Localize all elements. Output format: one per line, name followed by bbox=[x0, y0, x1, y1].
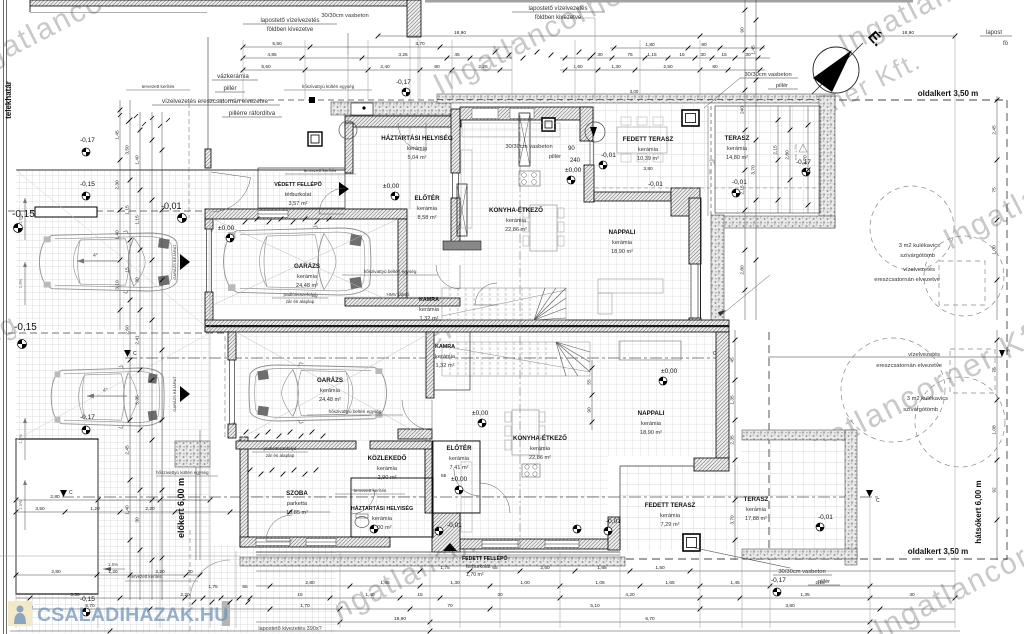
svg-text:1,20: 1,20 bbox=[90, 506, 100, 512]
svg-text:30: 30 bbox=[135, 277, 141, 283]
svg-text:1,75: 1,75 bbox=[440, 565, 450, 571]
svg-text:2,50: 2,50 bbox=[663, 64, 673, 70]
svg-text:lapostető vízelvezetés: lapostető vízelvezetés bbox=[528, 6, 587, 12]
svg-text:-0,01: -0,01 bbox=[161, 201, 182, 211]
svg-text:1,5%: 1,5% bbox=[18, 214, 23, 224]
svg-text:A: A bbox=[1007, 348, 1010, 353]
svg-text:1,00: 1,00 bbox=[992, 245, 998, 255]
svg-text:1,40: 1,40 bbox=[135, 155, 141, 165]
svg-text:18,90: 18,90 bbox=[394, 616, 406, 622]
svg-text:1,70: 1,70 bbox=[300, 603, 310, 609]
svg-text:kerámia: kerámia bbox=[506, 218, 527, 224]
svg-text:18,90 m²: 18,90 m² bbox=[640, 430, 662, 436]
svg-text:4°: 4° bbox=[103, 388, 108, 394]
svg-text:75: 75 bbox=[627, 52, 633, 58]
svg-text:3,50: 3,50 bbox=[35, 506, 45, 512]
svg-text:2,15: 2,15 bbox=[773, 145, 779, 155]
svg-text:HÁZTARTÁSI HELYISÉG: HÁZTARTÁSI HELYISÉG bbox=[351, 504, 413, 512]
svg-text:30/30cm vasbeton: 30/30cm vasbeton bbox=[321, 13, 368, 19]
svg-text:kerámia: kerámia bbox=[435, 354, 456, 360]
svg-text:fö: fö bbox=[1003, 41, 1009, 47]
svg-text:hőszivattyú kültéri egység: hőszivattyú kültéri egység bbox=[302, 84, 355, 89]
svg-text:240: 240 bbox=[740, 106, 746, 114]
svg-text:VÉDETT FELLÉPŐ: VÉDETT FELLÉPŐ bbox=[274, 180, 322, 188]
svg-text:5,04 m²: 5,04 m² bbox=[408, 155, 427, 161]
svg-text:3 m2 kulékavics: 3 m2 kulékavics bbox=[899, 243, 940, 249]
svg-text:pillérre ráfordítva: pillérre ráfordítva bbox=[229, 110, 276, 117]
svg-text:65: 65 bbox=[242, 584, 248, 590]
svg-text:2,45: 2,45 bbox=[125, 445, 131, 455]
svg-text:zár és alaplap: zár és alaplap bbox=[266, 453, 295, 458]
svg-text:HMV tároló: HMV tároló bbox=[387, 292, 410, 297]
svg-text:1,45: 1,45 bbox=[730, 580, 740, 586]
svg-text:3,10: 3,10 bbox=[115, 280, 121, 290]
svg-text:térburkolat: térburkolat bbox=[285, 192, 312, 198]
svg-text:oldalkert 3,50 m: oldalkert 3,50 m bbox=[908, 547, 968, 556]
svg-text:90: 90 bbox=[740, 27, 746, 33]
svg-text:előkert 6,00 m: előkert 6,00 m bbox=[176, 478, 186, 538]
svg-text:FEDETT FELLÉPŐ: FEDETT FELLÉPŐ bbox=[462, 554, 508, 562]
svg-text:80: 80 bbox=[701, 42, 707, 48]
svg-text:lapost: lapost bbox=[986, 30, 1002, 36]
svg-text:kerámia: kerámia bbox=[297, 274, 318, 280]
svg-text:1,5%: 1,5% bbox=[18, 434, 23, 444]
svg-text:GARÁZS BEJÁRAT: GARÁZS BEJÁRAT bbox=[172, 244, 177, 280]
svg-text:1,5%: 1,5% bbox=[18, 500, 23, 510]
svg-text:ereszcsatornán elvezetve: ereszcsatornán elvezetve bbox=[876, 363, 942, 369]
svg-text:hőszivattyú beltéri egység: hőszivattyú beltéri egység bbox=[364, 269, 417, 274]
svg-text:3,25: 3,25 bbox=[398, 52, 408, 58]
svg-text:földben kivezetve: földben kivezetve bbox=[267, 27, 314, 33]
svg-text:SZOBA: SZOBA bbox=[286, 490, 308, 497]
svg-text:7,29 m²: 7,29 m² bbox=[661, 522, 680, 528]
svg-text:±0,00: ±0,00 bbox=[383, 183, 400, 190]
svg-text:C: C bbox=[69, 490, 73, 496]
svg-text:C: C bbox=[876, 498, 880, 504]
svg-text:1,65: 1,65 bbox=[665, 580, 675, 586]
svg-text:30: 30 bbox=[745, 52, 751, 58]
svg-text:hőszivattyú beltéri egység: hőszivattyú beltéri egység bbox=[329, 409, 382, 414]
svg-text:1,40: 1,40 bbox=[125, 505, 131, 515]
svg-text:1,45: 1,45 bbox=[751, 45, 757, 55]
svg-text:tervezett kerítés: tervezett kerítés bbox=[130, 574, 162, 579]
svg-text:90: 90 bbox=[568, 146, 575, 152]
svg-text:2,80: 2,80 bbox=[51, 569, 61, 575]
svg-text:NAPPALI: NAPPALI bbox=[638, 410, 665, 417]
svg-text:80: 80 bbox=[712, 64, 718, 70]
svg-text:padlóösszefolyó: padlóösszefolyó bbox=[284, 292, 317, 297]
svg-text:3,70: 3,70 bbox=[730, 515, 736, 525]
svg-text:szívárgótömb: szívárgótömb bbox=[900, 253, 935, 259]
svg-text:pillér: pillér bbox=[776, 83, 788, 89]
svg-text:vízelvezetés ereszcsatornán el: vízelvezetés ereszcsatornán elvezetve bbox=[162, 98, 268, 105]
svg-text:24,48 m²: 24,48 m² bbox=[319, 397, 341, 403]
svg-text:TERASZ: TERASZ bbox=[744, 496, 769, 503]
svg-text:-0,15: -0,15 bbox=[80, 596, 95, 603]
svg-text:5,10: 5,10 bbox=[590, 603, 600, 609]
svg-text:vízelvezetés: vízelvezetés bbox=[908, 352, 940, 358]
svg-text:15: 15 bbox=[679, 52, 685, 58]
svg-text:4,20: 4,20 bbox=[625, 592, 635, 598]
svg-text:kerámia: kerámia bbox=[746, 507, 767, 513]
svg-text:GARÁZS: GARÁZS bbox=[317, 377, 343, 384]
svg-text:±0,00: ±0,00 bbox=[661, 368, 678, 375]
svg-text:4,85: 4,85 bbox=[267, 52, 277, 58]
svg-text:hőszivattyú kültéri egység: hőszivattyú kültéri egység bbox=[156, 470, 209, 475]
svg-text:1,35: 1,35 bbox=[730, 395, 736, 405]
svg-text:3,70: 3,70 bbox=[751, 165, 757, 175]
svg-text:szívárgótömb: szívárgótömb bbox=[903, 407, 938, 413]
svg-text:zár és alaplap: zár és alaplap bbox=[286, 299, 315, 304]
svg-text:3,00: 3,00 bbox=[630, 89, 639, 94]
svg-text:24,48 m²: 24,48 m² bbox=[296, 283, 318, 289]
svg-text:2,60: 2,60 bbox=[125, 325, 131, 335]
svg-text:30/30cm vasbeton: 30/30cm vasbeton bbox=[778, 569, 825, 575]
svg-text:1,5%: 1,5% bbox=[108, 562, 118, 567]
svg-text:90: 90 bbox=[587, 407, 593, 413]
svg-text:vázkerámia: vázkerámia bbox=[217, 73, 249, 80]
svg-text:kerámia: kerámia bbox=[377, 466, 398, 472]
svg-text:1,00: 1,00 bbox=[520, 580, 530, 586]
svg-text:30/30cm vasbeton: 30/30cm vasbeton bbox=[505, 144, 552, 150]
svg-text:6,70: 6,70 bbox=[645, 616, 655, 622]
svg-text:15: 15 bbox=[125, 267, 131, 273]
svg-text:1,32 m²: 1,32 m² bbox=[420, 316, 439, 322]
svg-text:65: 65 bbox=[492, 565, 498, 571]
svg-text:kerámia: kerámia bbox=[407, 146, 428, 152]
svg-text:padlóösszefolyó: padlóösszefolyó bbox=[264, 446, 297, 451]
svg-text:7,41 m²: 7,41 m² bbox=[450, 465, 469, 471]
svg-text:2,20: 2,20 bbox=[145, 506, 155, 512]
svg-text:1,30: 1,30 bbox=[450, 580, 460, 586]
svg-text:CSALADIHAZAK.HU: CSALADIHAZAK.HU bbox=[37, 604, 229, 626]
svg-text:±0,00: ±0,00 bbox=[472, 410, 489, 417]
svg-text:kerámia: kerámia bbox=[320, 388, 341, 394]
svg-text:kerámia: kerámia bbox=[417, 206, 438, 212]
svg-text:2,45: 2,45 bbox=[992, 125, 998, 135]
svg-text:ELŐTÉR: ELŐTÉR bbox=[446, 444, 472, 452]
svg-text:15: 15 bbox=[721, 52, 727, 58]
svg-text:kerámia: kerámia bbox=[419, 307, 440, 313]
svg-text:2,15: 2,15 bbox=[815, 580, 825, 586]
svg-text:3,80: 3,80 bbox=[785, 603, 795, 609]
svg-text:KAMRA: KAMRA bbox=[435, 344, 455, 350]
svg-text:1,80: 1,80 bbox=[645, 42, 655, 48]
svg-text:-0,01: -0,01 bbox=[447, 522, 462, 529]
svg-text:-0,15: -0,15 bbox=[14, 322, 37, 333]
svg-text:45: 45 bbox=[454, 52, 460, 58]
svg-text:1,30: 1,30 bbox=[611, 64, 621, 70]
svg-text:30: 30 bbox=[909, 592, 915, 598]
svg-text:1,50: 1,50 bbox=[655, 565, 665, 571]
svg-text:3,57 m²: 3,57 m² bbox=[289, 201, 308, 207]
svg-text:3 m2 kulékavics: 3 m2 kulékavics bbox=[907, 396, 948, 402]
svg-text:1,15: 1,15 bbox=[647, 52, 657, 58]
svg-text:kerámia: kerámia bbox=[372, 516, 393, 522]
svg-text:ELŐTÉR: ELŐTÉR bbox=[414, 194, 440, 202]
svg-text:3,80: 3,80 bbox=[643, 166, 653, 172]
svg-text:pillér: pillér bbox=[223, 85, 236, 92]
svg-text:-0,17: -0,17 bbox=[771, 577, 786, 584]
svg-text:1,5%: 1,5% bbox=[18, 278, 23, 288]
svg-text:1,40: 1,40 bbox=[365, 592, 375, 598]
svg-text:parketta: parketta bbox=[287, 501, 308, 507]
svg-text:KONYHA-ÉTKEZŐ: KONYHA-ÉTKEZŐ bbox=[489, 206, 543, 214]
svg-text:KONYHA-ÉTKEZŐ: KONYHA-ÉTKEZŐ bbox=[513, 434, 567, 442]
svg-text:2,80: 2,80 bbox=[785, 150, 791, 160]
svg-text:KÖZLEKEDŐ: KÖZLEKEDŐ bbox=[368, 455, 407, 462]
svg-text:1,32 m²: 1,32 m² bbox=[436, 363, 455, 369]
svg-text:tervezett kerítés: tervezett kerítés bbox=[304, 168, 337, 173]
svg-text:75: 75 bbox=[992, 367, 998, 373]
svg-text:80: 80 bbox=[434, 64, 440, 70]
svg-text:1,08: 1,08 bbox=[992, 425, 998, 435]
svg-text:TERASZ: TERASZ bbox=[725, 135, 750, 142]
svg-text:2,60: 2,60 bbox=[540, 565, 550, 571]
svg-text:1,65: 1,65 bbox=[380, 580, 390, 586]
svg-text:±0,00: ±0,00 bbox=[451, 476, 468, 483]
svg-text:pillér: pillér bbox=[549, 154, 561, 160]
svg-text:1,05: 1,05 bbox=[595, 580, 605, 586]
svg-text:lapostető vízelvezetés: lapostető vízelvezetés bbox=[260, 18, 319, 24]
svg-text:1,40: 1,40 bbox=[115, 230, 121, 240]
svg-text:tervezett kerítés: tervezett kerítés bbox=[142, 84, 175, 89]
svg-text:térburkolat: térburkolat bbox=[466, 564, 491, 570]
svg-text:2,90 m²: 2,90 m² bbox=[378, 475, 397, 481]
svg-text:4°: 4° bbox=[93, 253, 98, 259]
svg-text:55: 55 bbox=[441, 473, 447, 479]
svg-text:kerámia: kerámia bbox=[660, 513, 681, 519]
svg-text:2,25: 2,25 bbox=[478, 64, 488, 70]
svg-text:18,90: 18,90 bbox=[902, 30, 914, 36]
svg-text:kerámia: kerámia bbox=[449, 456, 470, 462]
svg-text:kerámia: kerámia bbox=[727, 146, 748, 152]
svg-text:oldalkert 3,50 m: oldalkert 3,50 m bbox=[918, 89, 978, 98]
svg-text:1,65: 1,65 bbox=[597, 565, 607, 571]
svg-text:3,50: 3,50 bbox=[125, 145, 131, 155]
svg-text:15: 15 bbox=[297, 592, 303, 598]
svg-text:min 1,5%: min 1,5% bbox=[794, 144, 798, 160]
svg-text:-0,01: -0,01 bbox=[648, 181, 663, 188]
svg-text:18,90: 18,90 bbox=[454, 30, 466, 36]
svg-text:55: 55 bbox=[587, 379, 593, 385]
svg-text:1,35: 1,35 bbox=[800, 592, 810, 598]
svg-text:-0,17: -0,17 bbox=[396, 79, 411, 86]
svg-text:FEDETT TERASZ: FEDETT TERASZ bbox=[645, 502, 696, 509]
svg-text:2,30: 2,30 bbox=[115, 180, 121, 190]
svg-text:-0,01: -0,01 bbox=[601, 152, 616, 159]
svg-text:10,39 m²: 10,39 m² bbox=[637, 156, 659, 162]
svg-text:kerámia: kerámia bbox=[612, 240, 633, 246]
svg-text:-0,01: -0,01 bbox=[818, 514, 833, 521]
svg-text:3,70: 3,70 bbox=[803, 155, 809, 165]
svg-text:vízelvezetés: vízelvezetés bbox=[903, 267, 935, 273]
svg-text:30: 30 bbox=[597, 52, 603, 58]
svg-text:±0,00: ±0,00 bbox=[565, 167, 582, 174]
svg-text:hátsókert 6,00 m: hátsókert 6,00 m bbox=[974, 480, 983, 543]
svg-text:3,50: 3,50 bbox=[70, 592, 80, 598]
svg-text:2,80: 2,80 bbox=[50, 494, 60, 500]
svg-text:45: 45 bbox=[730, 357, 736, 363]
svg-text:kerámia: kerámia bbox=[641, 421, 662, 427]
svg-text:-0,01: -0,01 bbox=[606, 518, 621, 525]
svg-text:ereszcsatornán elvezetve: ereszcsatornán elvezetve bbox=[874, 277, 940, 283]
svg-text:-0,15: -0,15 bbox=[12, 209, 35, 220]
svg-text:15: 15 bbox=[417, 592, 423, 598]
svg-text:2,15: 2,15 bbox=[740, 185, 746, 195]
svg-text:30: 30 bbox=[135, 517, 141, 523]
svg-text:5,50: 5,50 bbox=[261, 64, 271, 70]
svg-text:1,45: 1,45 bbox=[115, 130, 121, 140]
svg-text:30/30cm vasbeton: 30/30cm vasbeton bbox=[744, 72, 791, 78]
svg-text:2,35: 2,35 bbox=[730, 435, 736, 445]
svg-text:FEDETT TERASZ: FEDETT TERASZ bbox=[623, 136, 674, 143]
svg-text:kerámia: kerámia bbox=[638, 147, 659, 153]
svg-text:30: 30 bbox=[700, 52, 706, 58]
svg-text:C: C bbox=[133, 351, 137, 357]
svg-text:2,40: 2,40 bbox=[380, 64, 390, 70]
svg-text:17,88 m²: 17,88 m² bbox=[745, 516, 767, 522]
svg-text:1,15: 1,15 bbox=[125, 205, 131, 215]
svg-text:70: 70 bbox=[447, 603, 453, 609]
svg-text:HÁZTARTÁSI HELYISÉG: HÁZTARTÁSI HELYISÉG bbox=[381, 134, 453, 142]
svg-text:1,75: 1,75 bbox=[208, 584, 218, 590]
svg-text:8,58 m²: 8,58 m² bbox=[418, 215, 437, 221]
svg-text:kerámia: kerámia bbox=[530, 446, 551, 452]
svg-text:2,41: 2,41 bbox=[135, 335, 141, 345]
svg-text:1,15: 1,15 bbox=[135, 215, 141, 225]
svg-text:75: 75 bbox=[992, 187, 998, 193]
svg-text:2,80: 2,80 bbox=[740, 265, 746, 275]
svg-text:±0,00: ±0,00 bbox=[218, 225, 235, 232]
svg-text:-0,15: -0,15 bbox=[80, 181, 95, 188]
svg-text:KAMRA: KAMRA bbox=[419, 297, 439, 303]
svg-text:22,86 m²: 22,86 m² bbox=[505, 227, 527, 233]
svg-text:22,86 m²: 22,86 m² bbox=[529, 455, 551, 461]
svg-text:18,90 m²: 18,90 m² bbox=[611, 249, 633, 255]
svg-text:telekhatár: telekhatár bbox=[4, 81, 13, 119]
svg-text:GARÁZS: GARÁZS bbox=[294, 263, 320, 270]
svg-text:NAPPALI: NAPPALI bbox=[609, 229, 636, 236]
svg-text:5,35: 5,35 bbox=[135, 395, 141, 405]
svg-text:2,80: 2,80 bbox=[305, 580, 315, 586]
svg-text:tervezett kerítés: tervezett kerítés bbox=[354, 488, 387, 493]
svg-text:92: 92 bbox=[992, 487, 998, 493]
svg-text:-0,17: -0,17 bbox=[80, 137, 95, 144]
svg-text:240: 240 bbox=[570, 158, 581, 164]
svg-text:5,50: 5,50 bbox=[272, 41, 282, 47]
svg-text:GARÁZS BEJÁRAT: GARÁZS BEJÁRAT bbox=[172, 376, 177, 412]
